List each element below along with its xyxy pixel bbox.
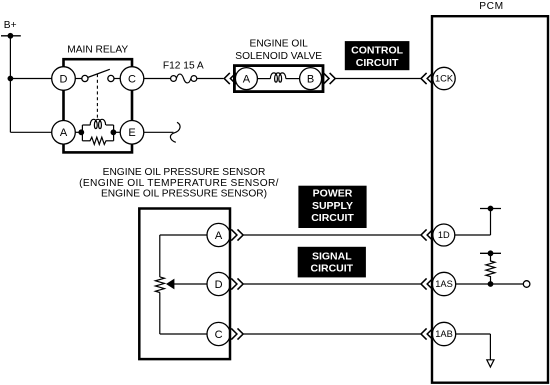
relay switch blade — [88, 69, 110, 77]
wire supply branch riser — [490, 209, 492, 236]
pull-up resistor R2 — [486, 253, 495, 284]
valve terminal B — [300, 68, 322, 90]
fuse element — [176, 74, 191, 83]
POWER SUPPLY CIRCUIT label — [298, 186, 366, 228]
B+ junction dot — [7, 33, 13, 39]
PCM pin 1AB — [432, 322, 455, 345]
sensor terminal A — [207, 223, 230, 246]
open terminal circle — [523, 281, 530, 288]
valve inner wires — [257, 78, 270, 80]
relay box — [64, 59, 133, 152]
sensor element resistor R3 — [155, 277, 164, 293]
connector chevrons after sensor D — [231, 278, 243, 289]
svg-text:SUPPLY: SUPPLY — [312, 200, 353, 212]
wire coil network left riser — [81, 125, 83, 141]
svg-text:D: D — [60, 73, 68, 85]
PCM pin 1CK — [433, 67, 455, 89]
wire 1AS to test point — [454, 283, 523, 285]
relay terminal A — [52, 121, 76, 145]
relay terminal D — [52, 67, 76, 91]
connector chevrons at PCM 1AS — [421, 278, 433, 289]
svg-text:A: A — [215, 230, 223, 242]
PCM pin 1AS — [432, 272, 455, 295]
wire sensor A to PCM 1D — [243, 234, 420, 236]
wire fuse to valve connector — [197, 78, 224, 80]
wiper arrow — [166, 279, 174, 290]
wire 1D to supply branch — [454, 234, 490, 236]
wire valve B to PCM 1CK — [335, 78, 420, 80]
svg-text:ENGINE OIL PRESSURE SENSOR: ENGINE OIL PRESSURE SENSOR — [103, 167, 266, 178]
wire 1AB to ground branch — [454, 333, 490, 335]
relay coil L1 — [90, 119, 105, 128]
svg-text:MAIN RELAY: MAIN RELAY — [67, 44, 128, 55]
ground symbol — [487, 360, 494, 367]
svg-text:A: A — [243, 74, 251, 86]
connector chevrons after valve B — [323, 73, 335, 84]
svg-text:CIRCUIT: CIRCUIT — [311, 212, 354, 224]
wire sensor element upper leg — [159, 235, 161, 277]
wire B+ to relay D — [10, 78, 52, 80]
wire sensor D to PCM 1AS — [243, 283, 420, 285]
relay terminal C — [120, 67, 144, 91]
wire coil top branch left — [82, 124, 90, 126]
wire B+ vertical — [9, 36, 11, 133]
wire relay C to fuse — [144, 78, 171, 80]
svg-text:CIRCUIT: CIRCUIT — [311, 262, 354, 274]
wire coil top branch right — [106, 124, 114, 126]
wire B+ to relay A — [10, 131, 52, 133]
supply bar above resistor — [480, 252, 501, 254]
wire switch contact to relay C — [114, 78, 120, 80]
solenoid valve box — [234, 66, 323, 92]
svg-text:F12 15 A: F12 15 A — [163, 61, 204, 72]
svg-text:SIGNAL: SIGNAL — [312, 250, 352, 262]
wire sensor C to PCM 1AB — [243, 333, 420, 335]
connector chevrons at PCM 1CK — [421, 73, 433, 84]
sensor box — [139, 209, 230, 360]
sensor terminal D — [207, 272, 230, 295]
valve terminal A — [235, 68, 257, 90]
PCM pin 1D — [433, 224, 455, 246]
svg-text:1AB: 1AB — [435, 329, 453, 339]
connector chevrons at PCM 1AB — [421, 328, 433, 339]
svg-text:C: C — [128, 73, 136, 85]
svg-text:D: D — [215, 279, 223, 291]
wire coil network to relay E — [114, 131, 121, 133]
svg-text:C: C — [215, 329, 223, 341]
junction dot at D row — [7, 76, 13, 82]
relay actuator dashed link — [96, 74, 98, 118]
svg-text:1CK: 1CK — [435, 74, 454, 84]
junction dot at 1AS — [488, 281, 494, 287]
wire relay D to switch contact — [75, 78, 82, 80]
svg-text:ENGINE OIL PRESSURE SENSOR): ENGINE OIL PRESSURE SENSOR) — [101, 189, 267, 200]
relay resistor R1 — [90, 137, 106, 144]
wire resistor bottom branch right — [106, 140, 114, 142]
wire coil network right riser — [113, 125, 115, 141]
connector chevrons at PCM 1D — [421, 229, 433, 240]
junction dot at 1D supply — [488, 206, 494, 212]
connector chevrons at valve A — [224, 73, 236, 84]
supply bar at 1D — [480, 208, 501, 210]
fuse terminal left — [171, 76, 177, 82]
wire wiper to terminal D — [173, 283, 207, 285]
svg-text:PCM: PCM — [479, 1, 503, 12]
sensor terminal C — [207, 322, 230, 345]
relay switch contact left — [82, 75, 88, 81]
offpage hook at relay E — [170, 122, 180, 142]
wire sensor element to terminal A — [160, 234, 208, 236]
wire relay A to coil network — [75, 131, 82, 133]
svg-text:POWER: POWER — [313, 188, 353, 200]
svg-text:E: E — [128, 127, 135, 139]
wire resistor bottom branch left — [82, 140, 90, 142]
svg-text:A: A — [60, 127, 68, 139]
relay terminal E — [120, 121, 144, 145]
svg-text:SOLENOID VALVE: SOLENOID VALVE — [235, 51, 322, 62]
svg-text:ENGINE OIL: ENGINE OIL — [250, 38, 309, 49]
relay switch contact right — [108, 75, 114, 81]
svg-text:(ENGINE OIL TEMPERATURE SENSOR: (ENGINE OIL TEMPERATURE SENSOR/ — [79, 178, 279, 189]
junction dot coil right — [111, 129, 117, 135]
SIGNAL CIRCUIT label — [298, 247, 366, 278]
svg-text:1AS: 1AS — [435, 279, 453, 289]
wire ground branch drop — [489, 334, 491, 360]
junction dot coil left — [78, 129, 84, 135]
PCM box — [432, 16, 548, 383]
connector chevrons after sensor C — [231, 328, 243, 339]
junction dot above resistor — [488, 250, 494, 256]
wire sensor element lower leg — [159, 292, 161, 334]
valve coil — [270, 73, 285, 82]
B+ supply bar — [1, 35, 21, 37]
wire sensor element to terminal C — [160, 333, 208, 335]
svg-text:B+: B+ — [4, 20, 17, 31]
svg-text:1D: 1D — [438, 230, 450, 240]
fuse terminal right — [191, 76, 197, 82]
CONTROL CIRCUIT label — [345, 41, 410, 70]
svg-text:B: B — [307, 74, 314, 86]
connector chevrons after sensor A — [231, 229, 243, 240]
wire relay E to offpage hook — [144, 131, 174, 133]
svg-text:CIRCUIT: CIRCUIT — [356, 57, 399, 69]
svg-text:CONTROL: CONTROL — [351, 45, 403, 57]
